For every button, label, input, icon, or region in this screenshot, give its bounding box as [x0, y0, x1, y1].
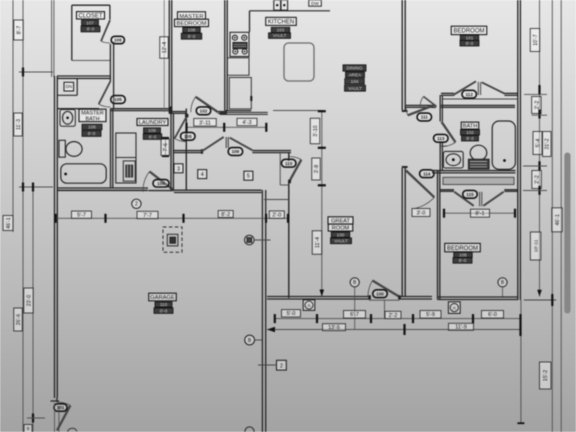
- svg-text:102: 102: [466, 130, 474, 135]
- svg-text:6'-7: 6'-7: [350, 312, 359, 318]
- svg-text:3'-10: 3'-10: [313, 125, 319, 136]
- svg-text:2'-2: 2'-2: [534, 101, 540, 110]
- svg-text:110: 110: [285, 161, 293, 166]
- svg-text:8'-0: 8'-0: [88, 131, 96, 136]
- svg-text:10'-7: 10'-7: [533, 34, 539, 45]
- svg-text:8'-0: 8'-0: [149, 134, 157, 139]
- svg-text:104: 104: [157, 181, 165, 186]
- svg-text:BEDROOM: BEDROOM: [177, 21, 207, 27]
- svg-text:100: 100: [337, 232, 345, 237]
- svg-text:4: 4: [201, 172, 204, 178]
- svg-text:8'-0: 8'-0: [459, 258, 467, 263]
- svg-text:5'-0: 5'-0: [287, 311, 296, 317]
- svg-text:5'-4: 5'-4: [535, 139, 541, 148]
- svg-text:VAULT: VAULT: [273, 33, 287, 38]
- svg-text:15'-2: 15'-2: [543, 370, 549, 381]
- svg-text:2: 2: [280, 363, 283, 369]
- svg-text:8'-0: 8'-0: [466, 41, 474, 46]
- svg-text:KITCHEN: KITCHEN: [268, 20, 294, 26]
- svg-text:105: 105: [114, 97, 122, 102]
- svg-text:105: 105: [459, 252, 467, 257]
- svg-text:13'-5: 13'-5: [328, 325, 340, 331]
- svg-text:106: 106: [114, 38, 122, 43]
- svg-text:BEDROOM: BEDROOM: [453, 29, 484, 35]
- svg-text:11'-4: 11'-4: [315, 237, 321, 248]
- svg-text:GARAGE: GARAGE: [150, 295, 175, 301]
- svg-text:2: 2: [135, 202, 138, 208]
- svg-text:11'-3: 11'-3: [16, 119, 22, 130]
- svg-text:46'-1: 46'-1: [6, 217, 12, 228]
- svg-text:GREAT: GREAT: [331, 218, 350, 224]
- svg-text:8'-7: 8'-7: [16, 26, 22, 35]
- svg-text:11'-9: 11'-9: [455, 325, 466, 331]
- svg-text:113: 113: [437, 136, 445, 141]
- svg-text:0'-0: 0'-0: [160, 308, 168, 313]
- svg-text:23'-0: 23'-0: [26, 295, 32, 306]
- svg-text:106: 106: [88, 125, 96, 130]
- svg-text:31'-2: 31'-2: [545, 138, 551, 149]
- svg-text:BEDROOM: BEDROOM: [447, 246, 478, 252]
- svg-text:102: 102: [200, 109, 208, 114]
- svg-text:LAUNDRY: LAUNDRY: [139, 120, 167, 126]
- svg-text:26'-6: 26'-6: [16, 314, 22, 325]
- svg-text:7'-7: 7'-7: [143, 213, 152, 219]
- svg-text:12'-4: 12'-4: [162, 42, 168, 53]
- svg-text:2'-0: 2'-0: [272, 213, 281, 219]
- svg-text:2'-2: 2'-2: [534, 175, 540, 184]
- svg-text:8'-1: 8'-1: [475, 211, 484, 217]
- svg-text:8'-0: 8'-0: [87, 27, 95, 32]
- svg-text:ROOM: ROOM: [332, 226, 350, 232]
- svg-text:108: 108: [188, 28, 196, 33]
- svg-text:111: 111: [421, 115, 429, 120]
- svg-text:114: 114: [423, 171, 431, 176]
- svg-text:6'-0: 6'-0: [488, 312, 497, 318]
- svg-text:8'-0: 8'-0: [188, 34, 196, 39]
- svg-text:BATH: BATH: [86, 116, 100, 122]
- svg-text:105: 105: [184, 134, 192, 139]
- svg-text:5'-7: 5'-7: [77, 213, 86, 219]
- svg-text:5: 5: [247, 174, 250, 180]
- svg-text:7'-6: 7'-6: [163, 143, 169, 152]
- svg-text:104: 104: [351, 79, 359, 84]
- svg-text:DW: DW: [311, 1, 319, 6]
- svg-text:VAULT: VAULT: [348, 86, 362, 91]
- svg-text:8'-2: 8'-2: [221, 212, 230, 218]
- svg-text:10'-11: 10'-11: [533, 239, 539, 252]
- svg-text:9: 9: [27, 426, 30, 431]
- svg-text:2'-2: 2'-2: [389, 313, 398, 319]
- svg-text:VAULT: VAULT: [334, 238, 348, 243]
- svg-text:100: 100: [376, 291, 384, 296]
- svg-text:3'-0: 3'-0: [417, 210, 426, 216]
- svg-text:3'-8: 3'-8: [314, 165, 320, 174]
- svg-text:3: 3: [177, 166, 180, 172]
- svg-text:5'-9: 5'-9: [426, 312, 435, 318]
- svg-text:8'-0: 8'-0: [466, 136, 474, 141]
- svg-text:DN: DN: [65, 84, 72, 89]
- svg-text:103: 103: [277, 28, 285, 33]
- svg-text:BATH: BATH: [463, 124, 478, 130]
- svg-text:112: 112: [465, 92, 473, 97]
- svg-text:115: 115: [466, 192, 474, 197]
- svg-text:3'-11: 3'-11: [199, 120, 211, 126]
- svg-text:101: 101: [57, 405, 65, 410]
- svg-text:101: 101: [466, 35, 474, 40]
- svg-text:46'-1: 46'-1: [555, 214, 561, 225]
- svg-text:110: 110: [160, 302, 168, 307]
- svg-text:107: 107: [86, 20, 94, 25]
- svg-text:MASTER: MASTER: [179, 14, 203, 20]
- svg-text:AREA: AREA: [349, 72, 362, 77]
- svg-text:CLOSET: CLOSET: [78, 13, 102, 19]
- svg-text:4'-3: 4'-3: [242, 120, 251, 126]
- svg-text:DINING: DINING: [346, 66, 363, 71]
- svg-text:109: 109: [148, 128, 156, 133]
- svg-text:109: 109: [232, 149, 240, 154]
